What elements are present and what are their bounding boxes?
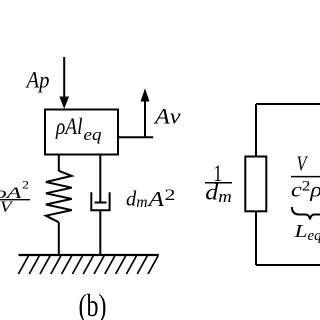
svg-text:2: 2 <box>22 178 29 192</box>
svg-text:ρAl: ρAl <box>55 114 82 139</box>
svg-text:eq: eq <box>308 228 320 244</box>
svg-text:eq: eq <box>84 125 103 144</box>
svg-text:2: 2 <box>165 187 176 204</box>
svg-text:Ap: Ap <box>25 68 50 93</box>
svg-text:A: A <box>146 187 164 211</box>
svg-text:V: V <box>297 151 309 175</box>
svg-text:(b): (b) <box>79 288 107 320</box>
svg-text:L: L <box>293 221 307 241</box>
svg-text:Aν: Aν <box>153 104 181 129</box>
